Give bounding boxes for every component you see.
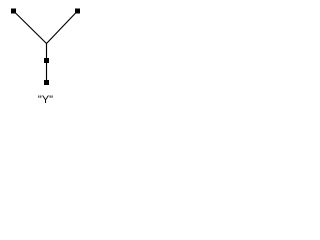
- wire: vertical trunk from junction through node C to node D: [46, 44, 48, 83]
- wire: right branch from node B to junction: [47, 11, 78, 44]
- node D (bottom square handle, trunk end): [44, 80, 49, 85]
- node C (middle square handle on trunk): [44, 58, 49, 63]
- node B (top-right square handle): [75, 9, 80, 14]
- node A (top-left square handle): [11, 9, 16, 14]
- svg-text:"Y": "Y": [38, 94, 53, 106]
- wire: left branch from node A to junction: [14, 11, 47, 44]
